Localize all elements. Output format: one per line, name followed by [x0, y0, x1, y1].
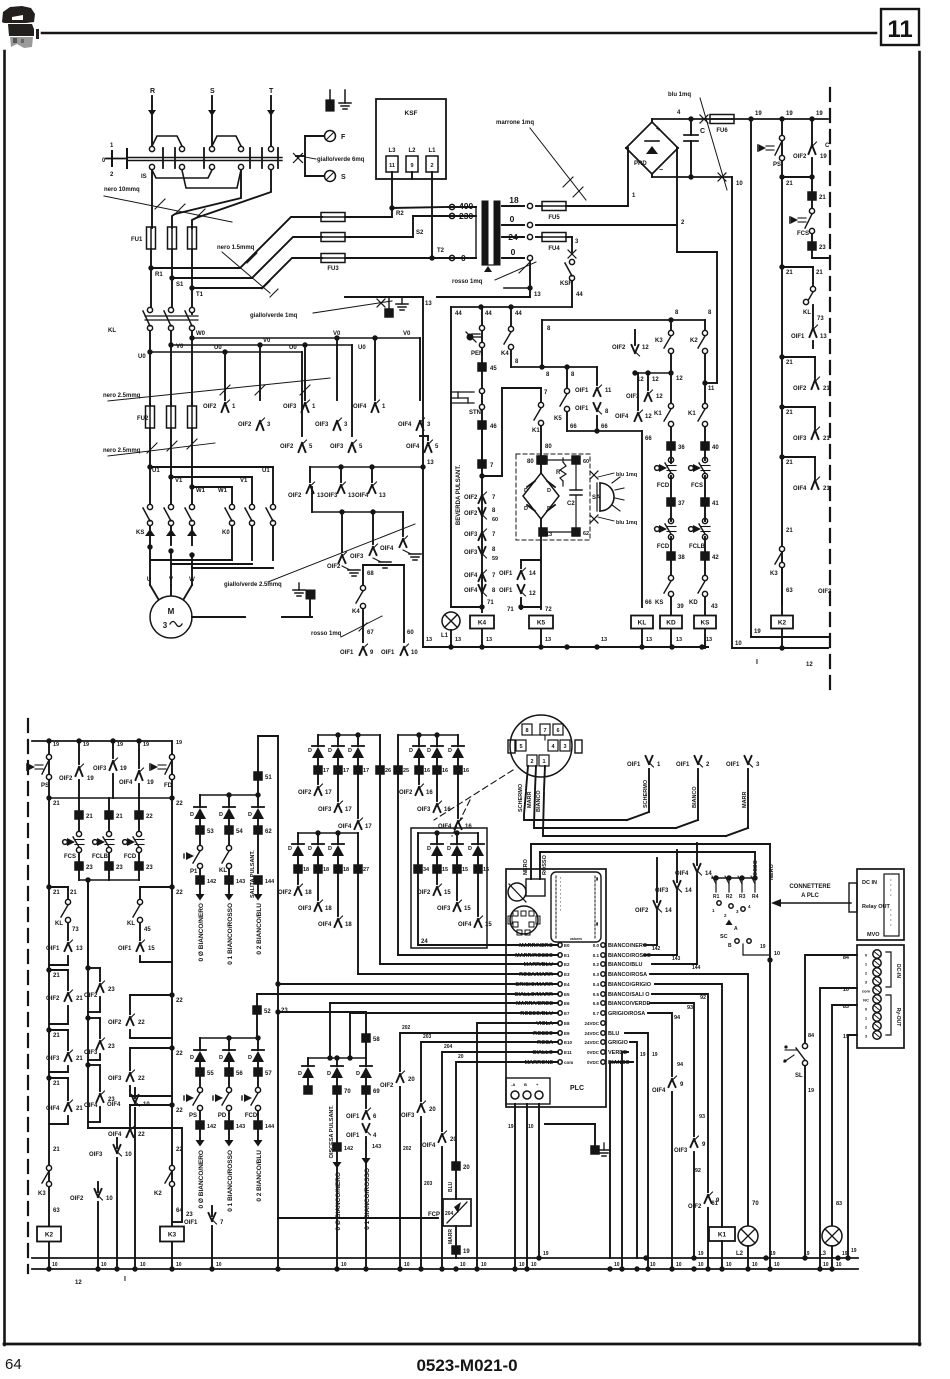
svg-text:84: 84 [808, 1033, 815, 1039]
svg-text:OIF3: OIF3 [315, 422, 329, 428]
svg-text:22: 22 [138, 1132, 145, 1138]
svg-text:FU6: FU6 [716, 128, 728, 134]
svg-text:13: 13 [486, 637, 492, 643]
svg-text:400: 400 [459, 201, 473, 211]
svg-text:0 Ø BIANCO/NERO: 0 Ø BIANCO/NERO [198, 903, 205, 962]
svg-text:U: U [147, 577, 151, 583]
svg-text:FCLB: FCLB [92, 854, 109, 860]
svg-text:FU3: FU3 [327, 266, 339, 272]
svg-text:OIF3: OIF3 [674, 1148, 688, 1154]
svg-text:D: D [219, 812, 223, 818]
svg-text:T1: T1 [196, 292, 204, 298]
svg-text:marrone 1mq: marrone 1mq [496, 120, 534, 126]
svg-text:11: 11 [389, 163, 395, 169]
svg-text:13: 13 [534, 292, 541, 298]
svg-text:52: 52 [264, 1009, 271, 1015]
svg-text:U0: U0 [138, 354, 146, 360]
svg-text:blu 1mq: blu 1mq [616, 472, 637, 478]
svg-text:18: 18 [325, 906, 332, 912]
svg-text:34: 34 [423, 867, 430, 873]
svg-text:10: 10 [823, 1262, 829, 1268]
svg-text:PS: PS [41, 783, 49, 789]
svg-text:R2: R2 [396, 211, 404, 217]
svg-text:19: 19 [508, 1124, 514, 1130]
svg-text:KL: KL [108, 328, 116, 334]
svg-text:0.0: 0.0 [593, 943, 600, 948]
svg-text:OIF4: OIF4 [46, 1106, 60, 1112]
svg-text:R3: R3 [739, 894, 746, 900]
svg-text:10: 10 [614, 1262, 620, 1268]
svg-text:71: 71 [507, 607, 514, 613]
svg-text:E7: E7 [564, 1011, 570, 1016]
svg-text:1: 1 [542, 759, 545, 765]
svg-text:L2: L2 [736, 1251, 744, 1257]
svg-text:3: 3 [163, 621, 168, 630]
svg-text:2: 2 [430, 163, 433, 169]
svg-text:FU2: FU2 [137, 416, 149, 422]
svg-text:OIF4: OIF4 [84, 1103, 98, 1109]
svg-text:OIF1: OIF1 [676, 762, 690, 768]
svg-text:17: 17 [363, 768, 369, 774]
svg-text:FU1: FU1 [131, 237, 143, 243]
svg-text:44: 44 [515, 311, 522, 317]
svg-text:D: D [468, 846, 472, 852]
svg-text:20: 20 [450, 1137, 457, 1143]
svg-text:MARRONE: MARRONE [525, 1060, 554, 1066]
svg-text:21: 21 [76, 1056, 83, 1062]
svg-text:OIF1: OIF1 [499, 571, 513, 577]
svg-text:E3: E3 [564, 972, 570, 977]
svg-text:OIF2: OIF2 [46, 996, 60, 1002]
svg-text:68: 68 [367, 571, 374, 577]
svg-text:19: 19 [117, 742, 123, 748]
svg-text:13: 13 [427, 460, 434, 466]
svg-text:21: 21 [70, 890, 77, 896]
svg-text:M: M [168, 607, 175, 616]
svg-text:10: 10 [125, 1152, 132, 1158]
svg-text:E2: E2 [564, 962, 570, 967]
svg-text:OIF4: OIF4 [422, 1143, 436, 1149]
svg-text:OIF4: OIF4 [652, 1088, 666, 1094]
svg-text:55: 55 [207, 1071, 214, 1077]
svg-text:21: 21 [116, 814, 123, 820]
svg-text:5: 5 [519, 744, 522, 750]
svg-text:19: 19 [463, 1249, 470, 1255]
svg-text:FU5: FU5 [548, 215, 560, 221]
svg-text:13: 13 [676, 637, 682, 643]
svg-text:42: 42 [712, 555, 719, 561]
svg-text:22: 22 [176, 1051, 183, 1057]
svg-text:▮: ▮ [596, 921, 598, 926]
svg-text:PS: PS [189, 1113, 197, 1119]
svg-text:D: D [308, 846, 312, 852]
svg-text:C: C [700, 128, 705, 135]
svg-text:67: 67 [367, 630, 374, 636]
svg-text:OIF2: OIF2 [278, 890, 292, 896]
svg-text:FCD: FCD [245, 1113, 258, 1119]
svg-text:PEN: PEN [471, 351, 483, 357]
svg-text:7: 7 [543, 728, 546, 734]
svg-text:BIANCO/VERDE: BIANCO/VERDE [608, 1001, 651, 1007]
svg-text:OIF2: OIF2 [288, 493, 302, 499]
svg-text:0.5: 0.5 [593, 992, 600, 997]
svg-text:K3: K3 [770, 571, 778, 577]
svg-text:17: 17 [345, 807, 352, 813]
svg-text:OIF1: OIF1 [499, 588, 513, 594]
svg-text:73: 73 [72, 927, 79, 933]
svg-text:com: com [862, 989, 871, 994]
svg-text:OIF2: OIF2 [298, 790, 312, 796]
svg-text:12: 12 [642, 345, 649, 351]
svg-text:BLU: BLU [448, 1181, 454, 1192]
svg-text:20: 20 [429, 1107, 436, 1113]
svg-text:19: 19 [143, 742, 149, 748]
svg-text:DC IN: DC IN [862, 880, 877, 886]
svg-text:STN: STN [469, 410, 481, 416]
svg-text:41: 41 [712, 501, 719, 507]
svg-text:10: 10 [143, 1102, 150, 1108]
svg-text:D: D [248, 812, 252, 818]
svg-text:nero 1.5mmq: nero 1.5mmq [217, 245, 255, 251]
svg-text:U1: U1 [152, 468, 160, 474]
svg-text:OIF2: OIF2 [59, 776, 73, 782]
svg-text:0.7: 0.7 [593, 1011, 600, 1016]
svg-text:E5: E5 [564, 992, 570, 997]
svg-text:D: D [427, 846, 431, 852]
svg-text:FD: FD [164, 783, 173, 789]
svg-text:19: 19 [53, 742, 59, 748]
svg-text:60: 60 [583, 459, 589, 465]
svg-text:OIF2: OIF2 [70, 1196, 84, 1202]
svg-text:PD: PD [218, 1113, 227, 1119]
svg-text:OIF2: OIF2 [612, 345, 626, 351]
svg-text:10: 10 [735, 641, 742, 647]
svg-text:24VDC: 24VDC [584, 1031, 599, 1036]
svg-text:17: 17 [325, 790, 332, 796]
svg-text:17: 17 [323, 768, 329, 774]
svg-text:23: 23 [116, 865, 123, 871]
svg-text:K3: K3 [655, 338, 663, 344]
svg-text:KSF: KSF [560, 281, 572, 287]
svg-text:I: I [124, 1276, 126, 1283]
svg-text:0 Ø BIANCO/NERO: 0 Ø BIANCO/NERO [198, 1150, 205, 1209]
svg-text:D: D [356, 1071, 360, 1077]
svg-text:0 1 BIANCO/ROSSO: 0 1 BIANCO/ROSSO [227, 1150, 234, 1212]
svg-text:U0: U0 [289, 345, 297, 351]
svg-text:OIF3: OIF3 [655, 888, 669, 894]
svg-text:11: 11 [605, 388, 612, 394]
svg-text:12: 12 [529, 591, 536, 597]
svg-text:13: 13 [646, 637, 652, 643]
svg-text:KSF: KSF [405, 110, 418, 117]
svg-text:▮: ▮ [596, 876, 598, 881]
svg-text:−: − [659, 167, 663, 174]
svg-text:19: 19 [820, 154, 827, 160]
svg-text:143: 143 [236, 1124, 245, 1130]
svg-text:21: 21 [786, 181, 793, 187]
svg-text:22: 22 [176, 1108, 183, 1114]
svg-text:DC-IN: DC-IN [895, 964, 901, 978]
svg-text:21: 21 [76, 1106, 83, 1112]
svg-text:44: 44 [455, 311, 462, 317]
svg-text:OIF4: OIF4 [108, 1132, 122, 1138]
svg-text:KS: KS [136, 530, 144, 536]
svg-text:OIF4: OIF4 [353, 404, 367, 410]
svg-text:OIF4: OIF4 [458, 922, 472, 928]
svg-text:MARR: MARR [448, 1229, 454, 1244]
svg-text:20: 20 [408, 1077, 415, 1083]
svg-text:11: 11 [887, 16, 912, 43]
svg-text:W1: W1 [218, 488, 228, 494]
svg-text:2: 2 [530, 759, 533, 765]
svg-text:A: A [734, 926, 738, 932]
svg-text:OIF1: OIF1 [346, 1133, 360, 1139]
svg-text:MVO: MVO [867, 932, 880, 938]
svg-text:FCS: FCS [691, 483, 703, 489]
svg-text:OIF1: OIF1 [627, 762, 641, 768]
svg-text:142: 142 [652, 946, 661, 952]
svg-text:OIF4: OIF4 [119, 780, 133, 786]
svg-text:OIF3: OIF3 [298, 906, 312, 912]
svg-text:13: 13 [426, 637, 432, 643]
svg-text:66: 66 [570, 424, 577, 430]
svg-text:20: 20 [463, 1165, 470, 1171]
svg-text:D: D [328, 748, 332, 754]
svg-text:19: 19 [543, 1251, 549, 1257]
svg-text:K1: K1 [532, 428, 540, 434]
svg-text:21: 21 [786, 270, 793, 276]
svg-text:15: 15 [483, 867, 489, 873]
svg-text:U1: U1 [262, 468, 270, 474]
svg-text:144: 144 [265, 1124, 275, 1130]
svg-text:Relay OUT: Relay OUT [862, 904, 890, 910]
svg-text:10: 10 [519, 1262, 525, 1268]
svg-text:14: 14 [685, 888, 692, 894]
svg-text:0: 0 [510, 214, 515, 224]
svg-text:92: 92 [695, 1168, 701, 1174]
svg-text:+: + [656, 126, 660, 133]
svg-text:16: 16 [465, 824, 472, 830]
svg-text:K2: K2 [45, 1232, 54, 1239]
svg-text:PLC: PLC [570, 1085, 584, 1092]
svg-text:I: I [756, 659, 758, 666]
svg-text:60: 60 [407, 630, 414, 636]
svg-text:OIF3: OIF3 [108, 1076, 122, 1082]
svg-text:R1: R1 [713, 894, 720, 900]
svg-text:▪: ▪ [560, 908, 561, 912]
svg-text:C: C [825, 143, 830, 149]
svg-text:OIF2: OIF2 [635, 908, 649, 914]
svg-text:OIF3: OIF3 [350, 554, 364, 560]
svg-text:B: B [728, 943, 732, 949]
svg-text:W1: W1 [196, 488, 206, 494]
svg-text:OIF2: OIF2 [380, 1083, 394, 1089]
svg-text:204: 204 [445, 1211, 454, 1217]
svg-text:10: 10 [774, 1262, 780, 1268]
svg-text:13: 13 [76, 946, 83, 952]
svg-text:58: 58 [373, 1037, 380, 1043]
svg-text:143: 143 [372, 1144, 381, 1150]
svg-text:143: 143 [672, 956, 681, 962]
svg-text:L1: L1 [428, 148, 436, 154]
svg-text:23: 23 [281, 1008, 288, 1014]
svg-text:OIF4: OIF4 [355, 493, 369, 499]
svg-text:D: D [547, 488, 551, 494]
svg-text:K2: K2 [690, 338, 698, 344]
svg-text:21: 21 [786, 410, 793, 416]
svg-text:MARR/VERDE: MARR/VERDE [516, 1001, 553, 1007]
svg-text:0 2 BIANCO/BLU: 0 2 BIANCO/BLU [256, 1150, 263, 1202]
svg-text:45: 45 [490, 366, 497, 372]
svg-text:OIF3: OIF3 [464, 532, 478, 538]
svg-text:22: 22 [176, 890, 183, 896]
svg-text:13: 13 [455, 637, 461, 643]
svg-text:10: 10 [216, 1262, 222, 1268]
svg-text:13: 13 [545, 637, 551, 643]
svg-text:D: D [298, 1071, 302, 1077]
svg-text:60: 60 [492, 517, 498, 523]
svg-text:ROSA/MARR: ROSA/MARR [519, 972, 553, 978]
svg-text:10: 10 [698, 1262, 704, 1268]
svg-text:36: 36 [678, 445, 685, 451]
svg-text:23: 23 [819, 245, 826, 251]
svg-text:OIF1: OIF1 [575, 406, 589, 412]
svg-text:MARR/NERO: MARR/NERO [519, 943, 554, 949]
svg-text:13: 13 [601, 637, 607, 643]
svg-text:KD: KD [689, 600, 698, 606]
svg-text:OIF2: OIF2 [327, 564, 341, 570]
svg-text:D: D [328, 846, 332, 852]
svg-text:OIF1: OIF1 [340, 650, 354, 656]
svg-text:19: 19 [760, 944, 766, 950]
svg-text:PRD: PRD [634, 161, 647, 167]
svg-text:S2: S2 [416, 230, 424, 236]
svg-text:-A: -A [511, 1082, 515, 1087]
svg-text:T: T [269, 88, 274, 95]
svg-text:53: 53 [207, 829, 214, 835]
svg-text:V1: V1 [175, 478, 183, 484]
svg-text:19: 19 [851, 1248, 857, 1254]
svg-text:21: 21 [53, 973, 60, 979]
svg-text:OIF4: OIF4 [464, 588, 478, 594]
svg-text:E1: E1 [564, 953, 570, 958]
svg-text:OIF3: OIF3 [793, 436, 807, 442]
svg-text:27: 27 [363, 867, 369, 873]
svg-text:59: 59 [492, 556, 498, 562]
svg-text:19: 19 [770, 1251, 776, 1257]
svg-text:10: 10 [650, 1262, 656, 1268]
svg-text:K2: K2 [778, 620, 787, 627]
svg-text:OIF1: OIF1 [46, 946, 60, 952]
svg-text:142: 142 [207, 1124, 216, 1130]
svg-text:com: com [564, 1060, 573, 1065]
svg-text:D: D [219, 1055, 223, 1061]
svg-text:70: 70 [344, 1089, 351, 1095]
svg-text:15: 15 [442, 867, 448, 873]
svg-text:VERDE: VERDE [608, 1050, 627, 1056]
svg-text:GIALLO: GIALLO [532, 1050, 553, 1056]
svg-text:OIF1: OIF1 [381, 650, 395, 656]
svg-text:16: 16 [424, 768, 430, 774]
svg-text:D: D [524, 506, 528, 512]
svg-text:U0: U0 [214, 345, 222, 351]
svg-text:19: 19 [83, 742, 89, 748]
svg-text:10: 10 [460, 1262, 466, 1268]
svg-text:OIF4: OIF4 [464, 573, 478, 579]
svg-text:19: 19 [698, 1251, 704, 1257]
svg-text:202: 202 [402, 1025, 411, 1031]
svg-text:SL: SL [795, 1073, 803, 1079]
svg-text:D: D [308, 748, 312, 754]
svg-text:BIANCO: BIANCO [536, 790, 542, 812]
svg-text:142: 142 [207, 879, 216, 885]
svg-text:E0: E0 [564, 943, 570, 948]
svg-text:21: 21 [53, 1147, 60, 1153]
svg-text:22: 22 [146, 814, 153, 820]
svg-text:OIF3: OIF3 [318, 807, 332, 813]
svg-text:71: 71 [487, 600, 494, 606]
svg-text:FCLB: FCLB [689, 544, 706, 550]
svg-text:V: V [169, 577, 173, 583]
svg-text:19: 19 [652, 1052, 658, 1058]
svg-text:GRIGIO/ROSA: GRIGIO/ROSA [608, 1011, 645, 1017]
svg-text:24VDC: 24VDC [584, 1040, 599, 1045]
svg-text:12: 12 [676, 376, 683, 382]
svg-text:Ry-OUT: Ry-OUT [895, 1008, 901, 1027]
svg-text:K1: K1 [688, 411, 696, 417]
svg-text:12: 12 [656, 394, 663, 400]
svg-text:ROSSO/BLU: ROSSO/BLU [520, 1011, 553, 1017]
svg-text:D: D [448, 748, 452, 754]
svg-text:10: 10 [106, 1196, 113, 1202]
svg-text:OIF2: OIF2 [203, 404, 217, 410]
svg-text:GRIGIO/MARR: GRIGIO/MARR [515, 982, 553, 988]
svg-text:FCD: FCD [124, 854, 137, 860]
svg-text:R: R [556, 470, 561, 476]
svg-text:FCD: FCD [657, 483, 670, 489]
svg-text:15: 15 [485, 922, 492, 928]
svg-text:12: 12 [806, 662, 813, 668]
svg-text:BIANCO/BLU: BIANCO/BLU [608, 962, 643, 968]
svg-text:92: 92 [700, 995, 706, 1001]
svg-text:·: · [890, 923, 892, 929]
svg-text:OIF2: OIF2 [417, 890, 431, 896]
svg-text:80: 80 [545, 444, 552, 450]
svg-text:0VDC: 0VDC [587, 1060, 600, 1065]
svg-text:OIF4: OIF4 [438, 824, 452, 830]
svg-text:0.3: 0.3 [593, 972, 600, 977]
svg-text:14: 14 [705, 871, 712, 877]
svg-text:24: 24 [508, 232, 518, 242]
svg-text:OIF1: OIF1 [575, 388, 589, 394]
svg-text:144: 144 [265, 879, 275, 885]
svg-text:rosso 1mq: rosso 1mq [311, 631, 342, 637]
svg-text:19: 19 [120, 766, 127, 772]
svg-text:12: 12 [75, 1280, 82, 1286]
svg-text:E9: E9 [564, 1031, 570, 1036]
svg-text:66: 66 [601, 424, 608, 430]
svg-text:10: 10 [481, 1262, 487, 1268]
svg-text:F: F [341, 134, 346, 141]
svg-text:19: 19 [176, 740, 182, 746]
svg-text:19: 19 [842, 1251, 848, 1257]
svg-text:E6: E6 [564, 1001, 570, 1006]
svg-text:18: 18 [343, 867, 349, 873]
svg-text:OIF3: OIF3 [324, 493, 338, 499]
svg-text:44: 44 [576, 292, 583, 298]
svg-text:94: 94 [677, 1062, 684, 1068]
svg-text:·: · [890, 893, 892, 899]
